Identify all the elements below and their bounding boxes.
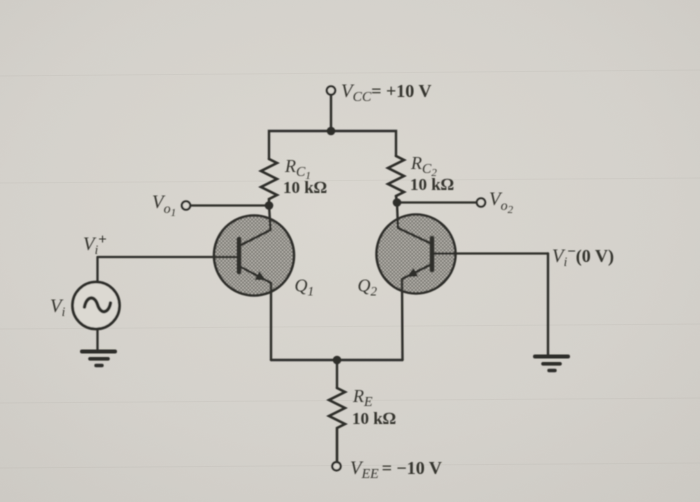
wire Vo2 [397,201,477,203]
wire Q1 base lead [98,256,239,258]
resistor RC1 [261,159,277,206]
transistor Q2 emitter arrow [407,268,419,277]
transistor Q1 base bar [237,239,242,272]
ground left [82,352,115,366]
svg-text:10 kΩ: 10 kΩ [352,409,396,428]
wire Q2 emitter lead [402,264,432,360]
svg-text:10 kΩ: 10 kΩ [410,175,454,194]
resistor RC2 [388,156,404,203]
transistor Q1 body circle [214,216,294,296]
wire Q2 base lead [432,252,548,254]
terminal VCC [327,86,335,94]
ground right [535,357,568,371]
wire VCC stem [330,95,332,131]
wire RE stem top [336,360,338,388]
wire Vi source bottom lead [96,329,98,351]
wire bottom rail [271,359,403,361]
node RC2 bottom [393,198,402,207]
transistor Q1 [98,205,294,360]
terminal Vo1 [182,201,190,209]
wire Vo1 [190,204,269,206]
wire top rail [269,131,396,159]
wire Q1 collector lead [239,205,271,246]
transistor Q2 body circle [377,215,456,294]
transistor Q2 [377,203,549,360]
ac source Vi sine symbol [85,298,111,312]
terminal Vo2 [477,198,485,206]
resistor RE [329,388,345,462]
transistor Q2 base bar [430,238,435,270]
node RC1 bottom [265,201,274,210]
wire Q2 collector lead [397,203,432,244]
node top junction [327,127,336,136]
ac source Vi [73,257,120,351]
svg-text:Vi−(0 V): Vi−(0 V) [552,244,614,269]
terminal VEE [332,462,340,470]
ac source Vi body circle [73,282,120,329]
svg-text:10 kΩ: 10 kΩ [283,178,327,197]
node emitter junction [333,356,342,365]
wire Vi source top lead [96,257,98,282]
transistor Q1 emitter arrow [255,271,266,280]
wire Q1 emitter lead [239,266,271,360]
wire right drop [547,254,549,356]
